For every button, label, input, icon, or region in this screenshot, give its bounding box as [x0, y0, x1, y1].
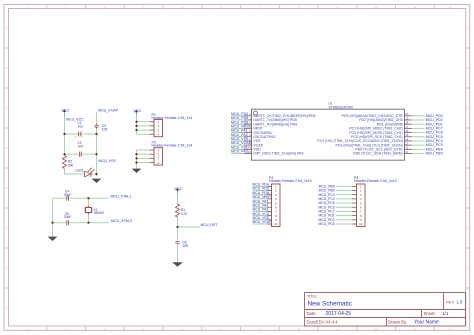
svg-text:10: 10 — [375, 5, 379, 9]
svg-text:MCU_PB5: MCU_PB5 — [426, 152, 443, 156]
svg-text:MCU_VSS: MCU_VSS — [99, 159, 117, 163]
svg-text:104: 104 — [78, 145, 84, 149]
svg-text:B: B — [467, 66, 469, 70]
svg-text:H: H — [467, 306, 469, 310]
svg-text:11: 11 — [405, 150, 408, 154]
svg-text:C: C — [467, 106, 469, 110]
svg-text:Header-Female 2.54_1x10: Header-Female 2.54_1x10 — [354, 179, 397, 183]
svg-text:MCU_VCAP: MCU_VCAP — [98, 109, 119, 113]
svg-text:Sheet:: Sheet: — [424, 311, 436, 316]
svg-text:+: + — [75, 135, 77, 139]
svg-text:G: G — [467, 266, 469, 270]
svg-text:10: 10 — [274, 222, 278, 226]
svg-text:PB5 (T) I2C_SDA (TIM1_BKIN): PB5 (T) I2C_SDA (TIM1_BKIN) — [353, 152, 402, 156]
svg-text:A: A — [467, 26, 469, 30]
svg-text:4.7k: 4.7k — [181, 212, 188, 216]
svg-text:(SPI_NSS) TIM2_CH3(HS) PA3: (SPI_NSS) TIM2_CH3(HS) PA3 — [253, 152, 303, 156]
svg-text:MCU_PD3: MCU_PD3 — [318, 222, 334, 226]
svg-text:U1: U1 — [329, 101, 333, 105]
svg-text:F: F — [5, 226, 7, 230]
svg-text:B: B — [5, 66, 7, 70]
svg-text:300: 300 — [68, 163, 74, 167]
svg-text:Header-Female 2.54_1x10: Header-Female 2.54_1x10 — [269, 179, 312, 183]
svg-text:105: 105 — [102, 127, 108, 131]
svg-text:10: 10 — [375, 327, 379, 331]
svg-text:D: D — [5, 146, 7, 150]
svg-text:TITLE:: TITLE: — [307, 295, 318, 299]
svg-text:2017-04-25: 2017-04-25 — [326, 311, 352, 317]
svg-text:MCU_XTAL1: MCU_XTAL1 — [111, 195, 132, 199]
svg-text:10u: 10u — [78, 124, 84, 128]
svg-text:12: 12 — [448, 5, 452, 9]
svg-text:F: F — [467, 226, 469, 230]
svg-text:11: 11 — [413, 5, 416, 9]
svg-text:A: A — [5, 26, 7, 30]
svg-text:MCU_PA3: MCU_PA3 — [231, 150, 248, 154]
svg-text:MCU_XTAL2: MCU_XTAL2 — [111, 219, 132, 223]
svg-text:105: 105 — [182, 244, 188, 248]
svg-text:Date:: Date: — [307, 311, 317, 316]
svg-text:STM8S003F3P6: STM8S003F3P6 — [329, 106, 354, 110]
svg-text:EasyEDA V4.4.4: EasyEDA V4.4.4 — [307, 320, 339, 325]
svg-text:Your Name: Your Name — [414, 320, 439, 326]
svg-text:1/1: 1/1 — [442, 311, 449, 316]
svg-text:E: E — [467, 186, 469, 190]
svg-text:C: C — [5, 106, 7, 110]
svg-text:1.0: 1.0 — [457, 300, 463, 305]
svg-text:10: 10 — [359, 222, 363, 226]
svg-text:16MHZ: 16MHZ — [94, 211, 105, 215]
svg-text:MCU_VCAP: MCU_VCAP — [253, 220, 273, 224]
svg-text:G: G — [5, 266, 7, 270]
svg-text:Drawn By:: Drawn By: — [388, 320, 407, 325]
svg-text:New Schematic: New Schematic — [308, 300, 353, 307]
svg-text:20pF: 20pF — [64, 215, 72, 219]
svg-text:LED1: LED1 — [76, 169, 84, 173]
svg-text:H: H — [5, 306, 7, 310]
svg-text:REV: REV — [446, 301, 454, 305]
svg-text:20pF: 20pF — [64, 193, 72, 197]
svg-text:Header-Female 2.54_1x4: Header-Female 2.54_1x4 — [152, 143, 193, 147]
svg-text:MCU_RST: MCU_RST — [201, 223, 219, 227]
svg-text:E: E — [5, 186, 7, 190]
svg-text:12: 12 — [448, 327, 452, 331]
svg-text:10: 10 — [248, 150, 252, 154]
svg-text:11: 11 — [413, 327, 416, 331]
svg-text:D: D — [467, 146, 469, 150]
